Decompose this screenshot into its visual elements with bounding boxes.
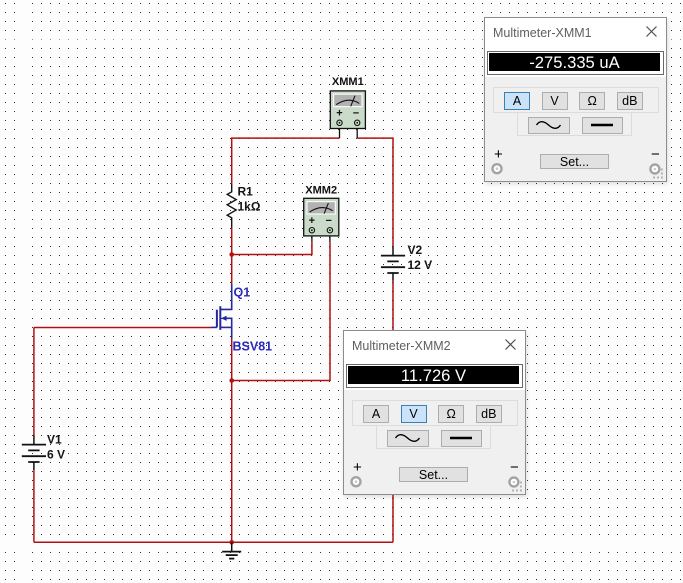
wire V1 top up to gate level <box>33 328 35 436</box>
svg-text:XMM2: XMM2 <box>305 185 337 197</box>
wire R1 bottom to node A <box>231 228 233 255</box>
transistor Q1 MOSFET <box>212 284 232 339</box>
wire V2 bottom to bottom rail <box>392 281 394 543</box>
sheet border band top <box>0 40 683 47</box>
ground <box>222 542 241 558</box>
svg-text:BSV81: BSV81 <box>233 340 273 354</box>
wire node A down to Q1 drain <box>231 255 233 285</box>
svg-text:V2: V2 <box>408 243 423 257</box>
wire XMM1 minus to V2 top <box>357 138 393 246</box>
wire bottom rail <box>34 541 393 543</box>
sheet border band bottom <box>0 537 683 550</box>
battery V1 <box>22 435 46 470</box>
label R1 value <box>238 185 261 214</box>
label V1 value <box>47 433 65 462</box>
label V2 value <box>408 243 433 272</box>
svg-text:12 V: 12 V <box>408 258 433 272</box>
wire node B to ground node <box>231 381 233 543</box>
junction node A <box>229 252 234 257</box>
junction node B <box>229 378 234 383</box>
svg-text:+: + <box>309 215 315 227</box>
wire V1 bottom to bottom rail <box>33 470 35 542</box>
multimeter icon XMM2 <box>304 198 339 242</box>
svg-text:−: − <box>326 215 332 227</box>
sheet border band right <box>593 0 600 583</box>
svg-text:−: − <box>353 108 359 120</box>
instrument panel Multimeter-XMM1 <box>484 17 667 182</box>
sheet border band left <box>19 0 25 583</box>
svg-text:+: + <box>336 108 342 120</box>
wire node A to XMM2 plus <box>232 242 312 254</box>
svg-text:R1: R1 <box>238 185 254 199</box>
svg-text:Q1: Q1 <box>234 286 251 300</box>
transistor Q1 arrow <box>221 316 227 321</box>
battery V2 <box>381 246 405 280</box>
junction ground node <box>229 540 234 545</box>
wire gate rail to Q1 gate <box>34 327 212 329</box>
wire net top: XMM1 plus to R1 top <box>232 138 340 184</box>
svg-text:1kΩ: 1kΩ <box>238 200 261 214</box>
svg-text:V1: V1 <box>47 433 62 447</box>
resistor R1 <box>227 184 236 228</box>
multimeter icon XMM1 <box>330 91 365 138</box>
wire node B to XMM2 minus <box>232 242 330 380</box>
svg-text:XMM1: XMM1 <box>332 76 364 88</box>
instrument panel Multimeter-XMM2 <box>343 330 526 495</box>
svg-text:6 V: 6 V <box>47 448 65 462</box>
wire Q1 source to node B <box>231 339 233 381</box>
